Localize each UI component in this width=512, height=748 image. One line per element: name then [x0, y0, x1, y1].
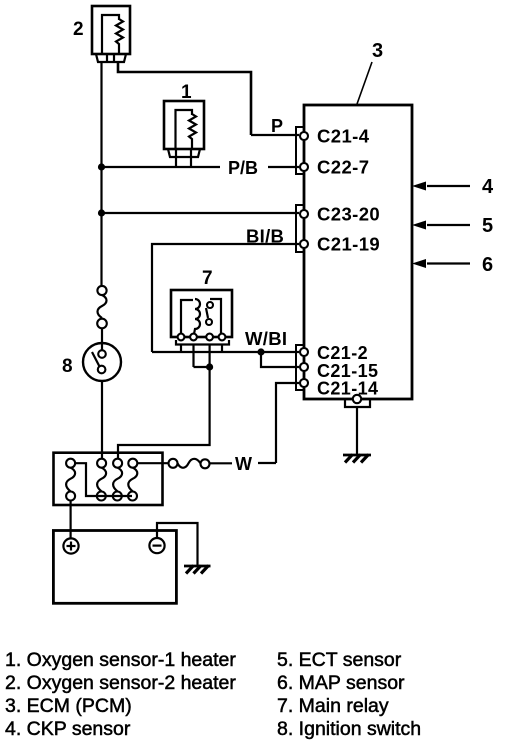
battery - wire to ground — [157, 523, 198, 566]
svg-text:7: 7 — [202, 268, 213, 289]
wire W to vertical — [258, 462, 276, 464]
junction dot P/B — [98, 163, 105, 170]
connector bracket C23-20/C21-19 — [296, 205, 304, 252]
svg-text:C21-14: C21-14 — [317, 379, 378, 399]
wire from comp2 left pin down (left vertical) — [100, 62, 102, 286]
pin C23-20 — [300, 210, 308, 218]
ECM (PCM) box — [304, 105, 412, 399]
svg-text:6. MAP sensor: 6. MAP sensor — [277, 672, 405, 694]
legend — [5, 649, 421, 740]
junction dot C23-20 — [98, 209, 105, 216]
relay junction dot — [206, 363, 213, 370]
W/BI wire to C21-2 — [152, 351, 299, 353]
svg-text:2: 2 — [73, 19, 84, 40]
relay pins — [178, 334, 185, 341]
svg-text:6: 6 — [482, 254, 493, 276]
ignition switch (8) — [83, 343, 121, 381]
connector bracket C21-2/15/14 — [296, 345, 304, 390]
ECM ground — [343, 455, 371, 463]
svg-text:W: W — [235, 454, 252, 474]
svg-text:4: 4 — [482, 176, 494, 198]
svg-text:5: 5 — [482, 215, 493, 237]
svg-text:C21-19: C21-19 — [317, 234, 380, 255]
svg-text:4. CKP sensor: 4. CKP sensor — [5, 718, 131, 740]
svg-text:8. Ignition switch: 8. Ignition switch — [277, 718, 421, 740]
BI/B wire to C21-19 — [152, 244, 299, 352]
relay switch — [210, 299, 221, 334]
pin C21-15 — [300, 363, 308, 371]
svg-text:2. Oxygen sensor-2 heater: 2. Oxygen sensor-2 heater — [5, 672, 236, 694]
wire to C23-20 — [102, 212, 300, 214]
relay pin wires — [180, 345, 182, 353]
fuse A — [66, 459, 75, 501]
wire link to switch — [101, 328, 103, 350]
svg-text:C22-7: C22-7 — [317, 157, 369, 178]
junction dot W/BI — [257, 348, 264, 355]
svg-text:3. ECM (PCM): 3. ECM (PCM) — [5, 695, 132, 717]
MAP sensor arrow (6) — [412, 254, 493, 276]
pin C21-14 — [300, 379, 308, 387]
pin C22-7 — [300, 163, 308, 171]
ECM bottom pin — [353, 395, 361, 403]
relay skirt — [176, 340, 229, 345]
pin C21-19 — [300, 240, 308, 248]
connector bracket C21-4/C22-7 — [296, 127, 304, 174]
svg-text:W/BI: W/BI — [245, 328, 287, 349]
P/B wire: junction to comp1 and to C22-7 — [102, 166, 221, 168]
main relay (7) box — [171, 290, 232, 337]
fusible link above ignition switch — [97, 286, 107, 328]
wire comp2 right pin: P net to C21-4 — [118, 62, 251, 135]
oxygen sensor-1 heater (component 1) — [164, 101, 204, 166]
svg-text:5. ECT sensor: 5. ECT sensor — [277, 649, 402, 671]
W wire vertical to C21-14 — [276, 383, 299, 463]
fuse box internal bus — [75, 463, 132, 496]
svg-text:P: P — [271, 116, 283, 136]
relay coil — [181, 300, 193, 334]
label 3 leader line — [357, 62, 372, 104]
battery ground — [184, 566, 211, 574]
svg-text:1: 1 — [181, 82, 192, 103]
pin C21-2 — [300, 348, 308, 356]
svg-text:C21-2: C21-2 — [317, 343, 368, 363]
svg-text:BI/B: BI/B — [246, 226, 284, 247]
wire fuse A to battery + — [69, 501, 71, 539]
wire dot to C21-15 — [261, 352, 299, 367]
wire to W label — [210, 462, 233, 464]
fuse C — [113, 459, 122, 501]
ECT sensor arrow (5) — [412, 215, 493, 237]
wire switch to fuse box — [101, 381, 103, 459]
CKP sensor arrow (4) — [412, 176, 494, 198]
ECM bottom bracket — [345, 399, 370, 407]
battery + terminal — [63, 538, 78, 553]
fuse B — [97, 459, 106, 501]
svg-text:7. Main relay: 7. Main relay — [277, 695, 389, 717]
battery - terminal — [149, 538, 164, 553]
svg-text:P/B: P/B — [228, 158, 258, 178]
external fusible link (W) — [169, 459, 210, 469]
battery — [53, 531, 176, 604]
fuse D — [128, 459, 137, 501]
svg-text:C23-20: C23-20 — [317, 204, 380, 225]
svg-text:C21-4: C21-4 — [317, 126, 370, 147]
oxygen sensor-2 heater (component 2) — [92, 6, 130, 62]
pin C21-4 — [300, 132, 308, 140]
svg-text:8: 8 — [62, 356, 73, 377]
ECM ground wire — [356, 407, 358, 455]
svg-text:1. Oxygen sensor-1 heater: 1. Oxygen sensor-1 heater — [5, 649, 236, 671]
fuse D to external fuse — [137, 462, 168, 464]
fuse box (junction block) — [54, 453, 163, 505]
svg-text:3: 3 — [372, 40, 383, 62]
